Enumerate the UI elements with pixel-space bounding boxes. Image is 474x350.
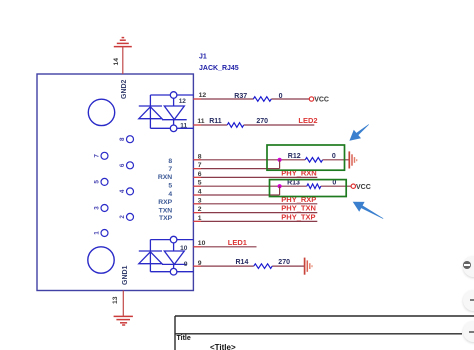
net label PHY_RXP <box>281 195 316 204</box>
ground (bottom) <box>114 316 133 325</box>
inside pin number 10 <box>180 245 188 252</box>
svg-text:7: 7 <box>168 166 172 173</box>
pin number 6 <box>198 171 202 178</box>
pin 7 wire <box>193 168 279 170</box>
svg-text:9: 9 <box>198 260 202 267</box>
wire pin4 to pin5 vertical <box>279 186 281 195</box>
pin number 11 <box>197 118 204 125</box>
svg-text:0: 0 <box>332 153 336 160</box>
resistor R14 <box>236 259 291 268</box>
svg-text:R11: R11 <box>209 118 222 125</box>
pin 5 stub <box>193 185 201 187</box>
contact 6 <box>119 162 134 169</box>
contact 1 <box>94 230 109 237</box>
connector J1 body <box>37 74 193 291</box>
svg-text:PHY_TXN: PHY_TXN <box>281 204 316 213</box>
part value JACK_RJ45 <box>199 65 239 72</box>
svg-text:1: 1 <box>94 231 101 235</box>
pin name RXP <box>158 199 172 206</box>
svg-text:270: 270 <box>256 118 268 125</box>
svg-text:10: 10 <box>180 245 188 252</box>
ground (top, flipped) <box>114 38 132 47</box>
svg-text:2: 2 <box>198 206 202 213</box>
contact 5 <box>94 178 109 185</box>
resistor R12 <box>288 153 336 162</box>
pin 9 stub <box>193 265 201 267</box>
svg-text:8: 8 <box>198 153 202 160</box>
svg-text:0: 0 <box>279 93 283 100</box>
resistor R13 <box>287 179 336 188</box>
pin number 8 <box>198 153 202 160</box>
svg-text:VCC: VCC <box>356 184 371 191</box>
pin 1 wire <box>193 220 317 222</box>
net label PHY_RXN <box>281 169 316 178</box>
svg-text:R14: R14 <box>236 259 249 266</box>
svg-text:5: 5 <box>198 180 202 187</box>
junction node pins 5-4 <box>278 184 282 188</box>
svg-text:RXN: RXN <box>158 174 172 181</box>
svg-text:<Title>: <Title> <box>210 343 236 350</box>
pin 6 wire <box>193 176 317 178</box>
pin number 3 <box>198 197 202 204</box>
UI button bottom <box>463 321 474 342</box>
pin 10 wire <box>193 246 256 248</box>
pin name 4 <box>168 191 172 198</box>
wire pin7 to pin8 vertical <box>279 160 281 169</box>
svg-text:J1: J1 <box>199 54 207 61</box>
svg-text:7: 7 <box>94 154 101 158</box>
resistor R37 <box>234 93 282 101</box>
svg-text:4: 4 <box>198 189 202 196</box>
chassis ground (after R12) <box>349 151 356 168</box>
inside pin number 11 <box>180 123 187 130</box>
pin 2 stub <box>193 212 201 214</box>
net label PHY_TXN <box>281 204 316 213</box>
svg-text:13: 13 <box>112 296 119 304</box>
pin name 7 <box>168 166 172 173</box>
annotation arrow 2 <box>353 202 384 219</box>
junction node pins 8-7 <box>278 158 282 162</box>
power VCC (after R13) <box>351 184 371 191</box>
svg-text:5: 5 <box>168 183 172 190</box>
svg-text:1: 1 <box>198 215 202 222</box>
pin number 13 <box>112 296 119 304</box>
jack keyway circle top <box>88 99 114 125</box>
highlight box R12 <box>267 145 345 170</box>
svg-text:3: 3 <box>198 197 202 204</box>
svg-text:TXN: TXN <box>159 208 173 215</box>
pin name GND1 <box>122 265 129 285</box>
pin number 4 <box>198 189 202 196</box>
svg-text:GND2: GND2 <box>121 79 128 99</box>
svg-text:LED1: LED1 <box>228 238 247 247</box>
svg-text:6: 6 <box>198 171 202 178</box>
pin name GND2 <box>121 79 128 99</box>
svg-text:5: 5 <box>94 180 101 184</box>
UI button top <box>463 256 474 277</box>
pin number 1 <box>198 215 202 222</box>
pin 11 stub <box>193 124 201 126</box>
pin number 2 <box>198 206 202 213</box>
pin 8 wire <box>193 159 349 161</box>
pin name TXP <box>159 215 173 222</box>
svg-text:6: 6 <box>119 163 126 167</box>
svg-text:10: 10 <box>198 240 206 247</box>
svg-text:11: 11 <box>180 123 187 130</box>
pin 7 stub <box>193 168 201 170</box>
svg-text:8: 8 <box>119 137 126 141</box>
pin 4 wire <box>193 194 279 196</box>
svg-text:JACK_RJ45: JACK_RJ45 <box>199 65 239 72</box>
resistor R11 <box>209 118 268 127</box>
svg-text:PHY_TXP: PHY_TXP <box>281 213 315 222</box>
svg-text:14: 14 <box>113 58 120 66</box>
pin 1 stub <box>193 220 201 222</box>
svg-text:9: 9 <box>184 261 188 268</box>
svg-text:TXP: TXP <box>159 215 173 222</box>
contact 3 <box>94 205 109 212</box>
svg-text:4: 4 <box>119 189 126 193</box>
pin number 10 <box>198 240 206 247</box>
pin 4 stub <box>193 194 201 196</box>
part reference J1 <box>199 54 207 61</box>
LED pair top (pins 12/11) <box>139 92 194 132</box>
svg-text:R37: R37 <box>234 93 247 100</box>
pin 5 wire <box>193 185 351 187</box>
svg-text:8: 8 <box>168 158 172 165</box>
svg-text:4: 4 <box>168 191 172 198</box>
svg-text:3: 3 <box>94 206 101 210</box>
svg-text:RXP: RXP <box>158 199 172 206</box>
wire pin13 to ground <box>122 291 124 317</box>
svg-text:VCC: VCC <box>314 97 329 104</box>
jack keyway circle bottom <box>88 247 114 273</box>
title block label Title <box>177 335 191 342</box>
svg-text:12: 12 <box>199 92 207 99</box>
svg-text:7: 7 <box>198 162 202 169</box>
pin 11 wire <box>193 124 314 126</box>
pin 8 stub <box>193 159 201 161</box>
pin number 12 <box>199 92 207 99</box>
net label LED1 <box>228 238 247 247</box>
pin name TXN <box>159 208 173 215</box>
pin 6 stub <box>193 176 201 178</box>
wire pin14 to ground <box>122 47 124 74</box>
inside pin number 9 <box>184 261 188 268</box>
pin 3 stub <box>193 203 201 205</box>
LED pair bottom (pins 10/9) <box>139 236 194 275</box>
net label PHY_TXP <box>281 213 315 222</box>
svg-text:R12: R12 <box>288 153 301 160</box>
inside pin number 12 <box>179 98 187 105</box>
pin name RXN <box>158 174 172 181</box>
svg-text:Title: Title <box>177 335 191 342</box>
svg-text:LED2: LED2 <box>298 116 317 125</box>
pin 12 stub <box>193 98 201 100</box>
svg-text:12: 12 <box>179 98 187 105</box>
highlight box R13 <box>270 180 347 197</box>
svg-text:11: 11 <box>197 118 204 125</box>
pin number 7 <box>198 162 202 169</box>
contact 8 <box>119 136 134 143</box>
pin 9 wire <box>193 265 304 267</box>
pin 2 wire <box>193 212 317 214</box>
title block placeholder <box>210 343 236 350</box>
pin number 14 <box>113 58 120 66</box>
power VCC (top) <box>309 97 329 104</box>
net label LED2 <box>298 116 317 125</box>
pin number 5 <box>198 180 202 187</box>
pin 12 wire <box>193 98 309 100</box>
svg-text:2: 2 <box>119 215 126 219</box>
contact 4 <box>119 188 134 195</box>
pin name 8 <box>168 158 172 165</box>
chassis ground (after R14) <box>305 258 312 275</box>
pin 3 wire <box>193 203 317 205</box>
svg-text:GND1: GND1 <box>122 265 129 285</box>
pin 10 stub <box>193 246 201 248</box>
contact 2 <box>119 213 134 220</box>
annotation arrow 1 <box>349 124 369 141</box>
pin name 5 <box>168 183 172 190</box>
pin number 9 <box>198 260 202 267</box>
contact 7 <box>94 152 109 159</box>
svg-text:270: 270 <box>278 259 290 266</box>
UI button middle <box>463 290 474 311</box>
title block border <box>175 316 474 350</box>
